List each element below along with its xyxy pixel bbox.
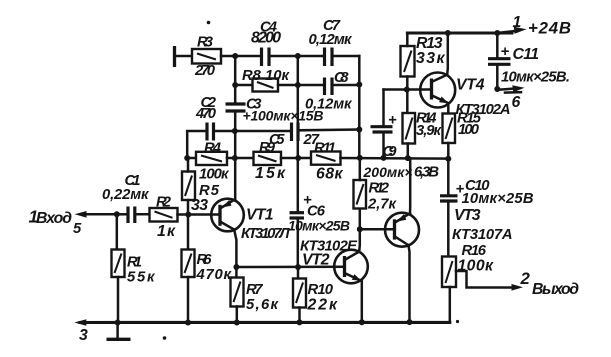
node C9 bottom — [381, 155, 387, 161]
svg-text:68к: 68к — [316, 166, 343, 183]
svg-text:КТ3102Е: КТ3102Е — [300, 239, 358, 255]
svg-text:R1: R1 — [127, 255, 142, 271]
wire R13 bottom to R14 — [406, 77, 409, 114]
wire R2 to VT1 base — [178, 213, 221, 216]
node R8-C8 / trunk B — [295, 82, 301, 88]
wire R14 bottom stub — [407, 144, 410, 159]
node VT4 base / R13-R14 — [404, 87, 410, 93]
node C11 top rail — [494, 30, 500, 36]
wire C8 to right trunk — [332, 84, 359, 87]
wire VT3 emitter up — [409, 158, 412, 213]
svg-text:3: 3 — [79, 327, 88, 344]
svg-text:R6: R6 — [197, 252, 213, 268]
capacitor C1 — [102, 173, 150, 223]
wire R4 to R9 — [227, 157, 254, 160]
node trunk A / R4 row — [232, 155, 238, 161]
svg-text:5,6к: 5,6к — [246, 297, 280, 313]
svg-text:470к: 470к — [196, 267, 233, 283]
svg-text:R8 10к: R8 10к — [242, 68, 291, 84]
transistor VT3 — [385, 207, 513, 247]
wire R7 bottom — [236, 307, 239, 323]
node R4 left — [184, 155, 190, 161]
svg-text:VT3: VT3 — [454, 207, 481, 224]
wire R5 top stub — [187, 158, 190, 172]
capacitor C11 — [488, 33, 570, 89]
node R9-R11 / trunk B — [295, 155, 301, 161]
resistor R4 — [196, 141, 230, 183]
node trunk A / C2 row — [232, 128, 238, 134]
resistor R10 — [293, 267, 338, 314]
terminal 3 arrow — [74, 319, 88, 344]
node R6 rail — [185, 320, 191, 326]
svg-text:КТ3107А: КТ3107А — [452, 227, 513, 243]
wire C6 to VT2 base row — [297, 218, 300, 267]
input terminal bar — [173, 46, 176, 67]
wire R3 to C4 — [221, 55, 261, 58]
wire R15 bottom stub — [447, 143, 450, 159]
output tap wire — [456, 271, 513, 288]
resistor R8 — [242, 68, 291, 92]
wire VT4 emitter to R15 — [447, 103, 450, 113]
wire R12 top stub — [359, 158, 362, 180]
svg-text:6: 6 — [512, 94, 521, 111]
node R8 left — [232, 82, 238, 88]
ground rail bottom — [80, 321, 450, 324]
wire R16 bottom to rail — [449, 287, 452, 323]
node VT3 base tee — [357, 226, 363, 232]
svg-text:С8: С8 — [334, 70, 349, 86]
resistor R2 — [150, 195, 178, 241]
svg-text:55к: 55к — [127, 270, 156, 286]
input arrow terminal 5 — [29, 207, 117, 238]
svg-text:1к: 1к — [157, 223, 176, 240]
capacitor C7 — [309, 18, 354, 66]
terminal 2 output arrow — [512, 269, 580, 298]
svg-text:С11: С11 — [513, 46, 540, 63]
wire input bar to R3 — [175, 55, 193, 58]
wire trunk A lower — [234, 113, 237, 199]
svg-text:8200: 8200 — [251, 30, 281, 47]
svg-text:R11: R11 — [314, 141, 336, 157]
wire R11 to C10 node — [341, 157, 449, 160]
wire R4 left stub — [187, 157, 196, 160]
node R7 rail — [234, 320, 240, 326]
wire VT2 emitter down — [361, 281, 364, 323]
resistor R14 — [403, 111, 443, 144]
resistor R12 — [354, 180, 398, 213]
svg-text:R2: R2 — [156, 195, 172, 211]
node VT2 emitter rail — [359, 319, 365, 325]
svg-text:10мк×25В.: 10мк×25В. — [501, 70, 570, 86]
ground symbol — [107, 323, 131, 340]
svg-text:10мк×25В: 10мк×25В — [462, 191, 534, 207]
resistor R11 — [311, 141, 343, 183]
node R1 rail — [115, 320, 121, 326]
resistor R3 — [192, 35, 221, 80]
node VT3 collector rail — [407, 319, 413, 325]
resistor R7 — [231, 267, 280, 313]
svg-text:+100мк×15В: +100мк×15В — [243, 108, 324, 124]
resistor R1 — [112, 214, 157, 285]
capacitor C10 — [440, 159, 534, 257]
terminal 6 arrow — [494, 85, 524, 111]
svg-text:3,9к: 3,9к — [416, 123, 443, 139]
svg-text:270: 270 — [194, 63, 216, 79]
transistor VT2 — [300, 239, 368, 284]
wire VT1 collector down — [234, 230, 236, 267]
svg-text:R4: R4 — [204, 141, 221, 157]
wire trunk A upper — [234, 56, 237, 102]
node VT1 collector — [233, 264, 239, 270]
node R15 bottom / C10 top — [445, 156, 451, 162]
svg-text:R7: R7 — [246, 282, 263, 298]
svg-text:470: 470 — [195, 106, 217, 122]
svg-text:VT1: VT1 — [246, 207, 274, 224]
svg-text:+: + — [388, 113, 397, 129]
node R5-R6 on base wire — [185, 212, 191, 218]
wire right trunk vertical — [358, 56, 361, 158]
wire VT4 collector up — [446, 33, 449, 75]
wire R1 bottom — [117, 277, 120, 323]
svg-text:200мк×: 200мк× — [363, 164, 413, 180]
capacitor C8 — [305, 70, 353, 113]
svg-text:33: 33 — [191, 197, 208, 214]
capacitor C2 — [195, 95, 217, 141]
wire R9 to R11 — [281, 157, 311, 160]
stray ink dot rail end — [456, 320, 459, 323]
node R1 top — [114, 211, 120, 217]
svg-text:15к: 15к — [255, 165, 286, 182]
power rail top — [407, 32, 512, 35]
capacitor C6 — [288, 193, 350, 234]
wire trunk B to C6 — [297, 158, 300, 211]
svg-text:22к: 22к — [307, 297, 338, 314]
svg-text:R3: R3 — [197, 35, 214, 51]
wire R10 bottom — [298, 308, 301, 323]
node VT4 collector rail — [445, 30, 451, 36]
node R10 rail — [297, 319, 303, 325]
node C8 right trunk — [356, 82, 362, 88]
wire R8 row left stub — [235, 84, 252, 87]
resistor R16 — [442, 243, 494, 287]
svg-text:Вход: Вход — [36, 210, 72, 227]
wire C2 row left corner — [187, 131, 207, 158]
svg-text:+: + — [501, 44, 510, 60]
svg-text:+24В: +24В — [528, 19, 571, 38]
resistor R15 — [443, 111, 482, 144]
wire trunk B vertical — [297, 56, 300, 158]
capacitor C9 — [363, 90, 440, 181]
node R12 top — [357, 155, 363, 161]
wire R8 to C8 — [278, 84, 325, 87]
svg-text:2: 2 — [520, 269, 531, 288]
svg-text:100к: 100к — [199, 167, 230, 183]
svg-text:КТ3107Л: КТ3107Л — [241, 226, 290, 242]
wire R6 bottom — [187, 277, 190, 323]
resistor R13 — [401, 35, 446, 77]
svg-text:0,22мк: 0,22мк — [102, 187, 150, 203]
transistor VT4 — [420, 73, 510, 119]
transistor VT1 — [211, 199, 290, 242]
node R14 bottom — [405, 155, 411, 161]
wire VT3 collector down — [409, 245, 410, 322]
wire C9 top to VT4 base node — [384, 88, 432, 91]
capacitor C3 — [226, 97, 324, 124]
svg-text:R12: R12 — [369, 181, 390, 197]
wire C2 to C5 — [214, 130, 292, 133]
wire VT3 base — [360, 228, 395, 231]
capacitor C5 — [269, 123, 320, 149]
svg-text:R9: R9 — [259, 140, 276, 156]
terminal 1 +24V arrow — [497, 14, 571, 38]
svg-text:1: 1 — [513, 14, 522, 31]
wire C7 to right trunk — [332, 55, 359, 58]
svg-text:6,3В: 6,3В — [414, 165, 439, 181]
wire C4 to C7 — [269, 55, 325, 58]
wire C1 to R2 — [135, 213, 150, 216]
stray ink dot bottom — [163, 336, 167, 340]
node C5 right trunk — [356, 127, 362, 133]
svg-text:Выход: Выход — [532, 281, 579, 298]
wire R5 bottom stub — [187, 200, 190, 215]
node R3-C4 row / trunk A — [232, 53, 238, 59]
capacitor C4 — [251, 20, 281, 67]
resistor R5 — [182, 172, 220, 215]
svg-text:VT4: VT4 — [456, 77, 485, 94]
svg-text:0,12мк: 0,12мк — [309, 32, 354, 48]
resistor R9 — [254, 140, 286, 182]
svg-text:33к: 33к — [416, 50, 445, 67]
node C4-C7 / trunk B — [295, 53, 301, 59]
wire C5 to right trunk — [298, 128, 359, 131]
wire R13 top stub — [406, 33, 409, 46]
svg-text:5: 5 — [73, 221, 82, 237]
wire VT2 collector up — [358, 209, 361, 252]
svg-text:2,7к: 2,7к — [367, 197, 398, 213]
wire VT1 collector to VT2 base — [236, 265, 344, 268]
resistor R6 — [182, 215, 233, 284]
stray ink dot top — [207, 21, 211, 25]
node C6-R10 on base wire — [295, 264, 301, 270]
svg-text:100: 100 — [458, 122, 480, 138]
svg-text:С9: С9 — [383, 144, 398, 160]
